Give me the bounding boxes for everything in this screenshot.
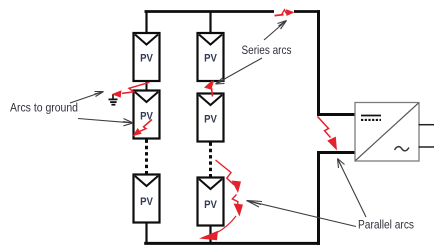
svg-text:PV: PV [204, 114, 217, 126]
svg-text:Arcs to ground: Arcs to ground [10, 101, 78, 115]
svg-text:PV: PV [204, 53, 217, 65]
svg-text:PV: PV [140, 196, 153, 208]
svg-text:Series arcs: Series arcs [242, 43, 292, 57]
svg-text:Parallel arcs: Parallel arcs [358, 218, 414, 232]
svg-text:PV: PV [204, 199, 217, 211]
svg-text:PV: PV [140, 53, 153, 65]
